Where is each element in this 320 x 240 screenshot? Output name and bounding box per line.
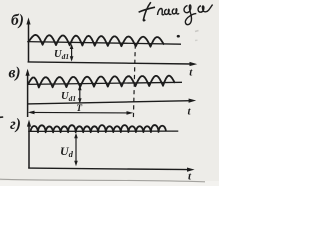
plot3 t-axis bbox=[28, 168, 189, 170]
plot3 t-axis arrowhead bbox=[187, 168, 195, 172]
plot3 y-axis arrowhead bbox=[27, 120, 31, 127]
page bottom edge curve bbox=[0, 179, 205, 182]
plot3 y-axis bbox=[28, 124, 30, 168]
plot1 Ud1 measure arrow bbox=[71, 47, 73, 60]
plot1 y-axis bbox=[28, 22, 30, 63]
plot1 t-axis bbox=[28, 62, 192, 64]
plot2 y-axis arrowhead bbox=[26, 69, 30, 76]
handwriting: letter d with descender bbox=[184, 5, 196, 25]
plot3 Ud measure arrow bbox=[75, 136, 77, 164]
plot3 level line bbox=[28, 130, 178, 132]
handwriting: crossed stroke bbox=[139, 2, 155, 20]
plot2 t-axis arrowhead bbox=[189, 99, 197, 103]
dashed vertical line at one period bbox=[133, 45, 135, 118]
plot2 mean-level line bbox=[27, 82, 182, 84]
svg-text:в): в) bbox=[9, 65, 21, 82]
plot1 y-axis arrowhead bbox=[26, 18, 30, 25]
plot2 ripple waveform bbox=[28, 76, 175, 88]
small dash left margin bbox=[0, 116, 3, 118]
plot2 y-axis bbox=[27, 73, 29, 117]
handwriting: word nado bbox=[158, 8, 180, 15]
faint smudges right margin bbox=[195, 31, 199, 32]
handwriting: letter o with tail bbox=[198, 5, 213, 13]
paper background bbox=[0, 0, 219, 186]
plot1 ripple waveform bbox=[29, 35, 165, 47]
svg-text:б): б) bbox=[11, 12, 24, 29]
svg-text:г): г) bbox=[10, 116, 21, 133]
plot2 Ud1 measure arrow bbox=[79, 88, 81, 102]
plot2 t-axis bbox=[27, 101, 191, 104]
period T double arrow bbox=[30, 111, 131, 114]
plot1 mean-level line bbox=[27, 42, 181, 45]
ink dot near end of plot1 line bbox=[177, 35, 180, 38]
plot3 ripple waveform bbox=[31, 125, 167, 132]
lighter strip below page edge bbox=[0, 181, 219, 186]
plot1 t-axis arrowhead bbox=[190, 62, 198, 66]
